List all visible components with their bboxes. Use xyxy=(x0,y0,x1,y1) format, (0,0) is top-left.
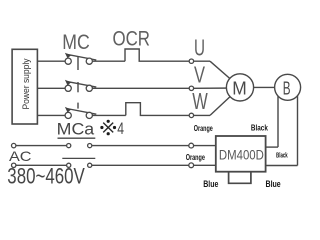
svg-text:Black: Black xyxy=(251,123,268,133)
svg-text:B: B xyxy=(283,78,291,99)
svg-text:Power supply: Power supply xyxy=(21,58,31,109)
svg-text:OCR: OCR xyxy=(113,26,151,50)
svg-text:Blue: Blue xyxy=(266,179,281,190)
svg-text:W: W xyxy=(192,88,208,114)
svg-text:4: 4 xyxy=(117,120,124,138)
svg-text:V: V xyxy=(194,61,205,87)
svg-text:U: U xyxy=(194,35,205,61)
svg-text:380~460V: 380~460V xyxy=(7,164,85,189)
svg-text:AC: AC xyxy=(9,148,32,164)
svg-text:Orange: Orange xyxy=(186,153,206,162)
svg-text:Orange: Orange xyxy=(194,124,213,133)
svg-text:MC: MC xyxy=(62,30,90,54)
svg-text:MCa: MCa xyxy=(57,121,95,139)
svg-text:M: M xyxy=(232,79,247,99)
svg-text:DM400D: DM400D xyxy=(219,146,264,162)
svg-text:Black: Black xyxy=(276,153,288,160)
svg-text:Blue: Blue xyxy=(203,179,218,190)
